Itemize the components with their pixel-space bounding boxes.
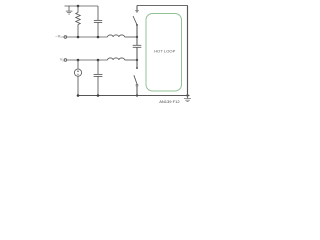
wire rail B left segment [67, 59, 108, 61]
svg-text:−ROUT: −ROUT [55, 33, 67, 39]
svg-text:HOT LOOP: HOT LOOP [154, 48, 175, 53]
capacitor C2 [94, 60, 103, 96]
node junction C1/rail A [97, 36, 100, 39]
node junction R1/rail A [77, 36, 80, 39]
node junction rail A / switch branch [136, 36, 138, 38]
node junction return wire/rail C [186, 94, 188, 96]
resistor R1 [76, 6, 80, 37]
node junction switch branch/rail C [136, 94, 138, 96]
inductor L1 [108, 35, 125, 37]
node junction C2/rail B [97, 59, 100, 62]
svg-text:AN139 F12: AN139 F12 [159, 99, 180, 104]
svg-text:VIN: VIN [60, 57, 66, 63]
ground (top-left GND symbol) [66, 6, 73, 14]
wire rail A left segment [67, 36, 108, 38]
capacitor C1 [94, 20, 102, 37]
switch S1 (top switch) [133, 5, 138, 37]
voltage source V1 [74, 60, 81, 96]
wire hot-loop top line [137, 4, 188, 6]
capacitor C3 (hot loop input cap) [133, 37, 142, 60]
wire cap C1 top lead [97, 6, 99, 20]
node junction C2/rail C [97, 94, 100, 97]
wire hot-loop right return wire [187, 5, 189, 95]
inductor L2 [108, 58, 125, 60]
ground (bottom-right GND symbol) [184, 96, 191, 102]
wire bottom rail C [78, 95, 190, 97]
switch S2 (bottom switch) [134, 60, 138, 96]
wire rail A right segment [125, 36, 137, 38]
node terminal Vin [64, 59, 67, 62]
node junction rail B / switch branch [136, 59, 138, 61]
wire rail B right segment [125, 59, 137, 61]
node terminal -Rout [64, 36, 67, 39]
node junction V1/rail B [77, 59, 80, 62]
node junction V1/rail C [77, 94, 80, 97]
hot loop highlight box [146, 14, 182, 92]
node junction at resistor top [77, 5, 80, 8]
wire ground-node top wire [65, 5, 99, 7]
